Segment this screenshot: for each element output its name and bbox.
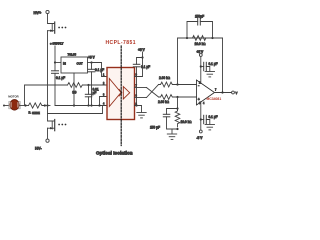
label Optical Isolation [96,150,133,155]
node HV+ terminal [46,10,49,13]
svg-text:0.1 µF: 0.1 µF [209,115,218,119]
wire GND1 bus [55,105,107,107]
label +SUPPLY [50,42,63,46]
wire op-amp V- [200,102,202,131]
svg-text:MC34081: MC34081 [207,97,222,101]
svg-text:10.0 kΩ: 10.0 kΩ [181,120,193,124]
svg-text:2.00 kΩ: 2.00 kΩ [158,100,170,104]
svg-text:-5 V: -5 V [197,136,204,140]
wire R3 to op-amp non-inverting input [174,96,197,98]
wire R1 to pin 2 [83,84,108,86]
wire feedback left riser [178,38,223,85]
pin number 4 [103,104,105,106]
wire pin 5 to ground [135,106,142,113]
svg-text:2.00 kΩ: 2.00 kΩ [159,76,171,80]
junction +5V node [90,61,92,63]
wire +SUPPLY lead [54,46,56,63]
wire pin 8 to +5V riser [135,52,143,77]
junction regulator GND on bus [73,104,75,106]
node -5V terminal [199,130,202,133]
pin number 7 (op-amp out) [215,90,217,92]
svg-text:0.1 µF: 0.1 µF [209,62,218,66]
svg-text:Optical Isolation: Optical Isolation [96,150,133,155]
label +5V (output side top) [138,48,146,52]
capacitor C4 0.1uF (VDD2 bypass) [133,58,150,106]
regulator U2 78L05 [61,53,88,74]
motor M1 [8,95,20,110]
pin number 2 (op-amp) [199,82,201,84]
ground (filter) [167,134,176,139]
continuation dots of phase leg (top) [58,27,66,29]
resistor R_SENSE [29,103,45,115]
pin number 4 (op-amp) [203,103,205,105]
resistor R5 10.0k (filter) [175,109,192,127]
wire +5V to pin 1 [92,63,108,77]
ground (V- bypass) [205,125,214,130]
resistor R3 2.00k (lower) [158,95,174,104]
capacitor C1 0.1uF (regulator input) [52,63,66,106]
svg-text:+: + [198,97,200,101]
junction C4 on pin5 ground wire [135,104,137,106]
node +5V terminal (op-amp supply) [199,54,202,57]
svg-text:OUT: OUT [77,61,83,65]
resistor R4 10.0k feedback [193,36,207,46]
transistor Q1 upper MOSFET [48,22,55,33]
junction supply/IN [54,61,56,63]
svg-text:+5 V: +5 V [138,48,146,52]
capacitor C5 150pF feedback [187,15,213,39]
svg-text:10.0 kΩ: 10.0 kΩ [195,42,207,46]
wire lower leg drain [48,114,55,122]
wire to regulator IN [55,62,61,64]
svg-text:0.1 µF: 0.1 µF [56,76,65,80]
wire phase node stub [45,105,50,107]
wire feedback right riser to output [222,38,224,93]
junction V- bypass [200,118,202,120]
svg-text:HV+: HV+ [34,10,43,15]
svg-text:7: 7 [215,90,217,92]
label -5V [197,136,204,140]
wire terminal to motor [4,105,10,107]
wire sense tap to 39 ohm (left run) [25,85,68,106]
pin number 8 [136,75,138,77]
pin number 3 [103,95,105,97]
node HV- terminal [46,139,49,142]
ground (V+ bypass) [205,72,214,77]
isolation dashed line [120,46,122,146]
wire crossover pin6 to upper row [147,85,159,98]
pin number 6 [136,96,138,98]
svg-text:R: R [29,111,31,115]
junction pin2 node [87,84,89,86]
wire op-amp output [215,92,232,94]
node motor input terminal [3,105,5,107]
pin number 1 [103,75,105,77]
svg-text:MOTOR: MOTOR [8,95,18,99]
junction feedback tap [176,83,178,85]
node Vout terminal [232,91,235,94]
wire pin 7 stub [135,87,147,89]
junction pin8 bypass node [141,56,143,58]
junction feedback cap left [186,37,188,39]
wire pin 3 riser [100,97,108,106]
junction output/feedback [221,91,223,93]
wire crossover pin7 to lower row [147,88,159,98]
label +5V (input side) [88,56,96,60]
junction filter bottom [176,128,178,130]
svg-text:+ SUPPLY: + SUPPLY [50,42,63,46]
wire filter to ground [171,129,173,134]
junction C2 on GND1 bus [90,104,92,106]
wire op-amp V+ [200,56,202,83]
resistor R1 39 ohm [68,83,83,95]
capacitor C8 0.1uF (V- bypass) [201,115,218,124]
junction V+ bypass [200,65,202,67]
junction filter top [176,107,178,109]
pin number 2 [103,83,105,85]
junction phase node dots [44,104,49,106]
svg-text:V: V [236,91,238,95]
svg-text:SENSE: SENSE [32,113,40,115]
ground GND2 (under pin5) [137,113,146,118]
wire motor to R_SENSE [20,105,29,107]
pin number 5 [136,104,138,106]
amp symbol inside U1 (output side) [123,87,129,100]
capacitor C2 0.1uF (regulator output) [88,63,104,106]
svg-text:78L05: 78L05 [68,53,77,57]
optical link chevron [119,89,122,96]
pin number 3 (op-amp) [199,103,201,105]
svg-text:0.1 µF: 0.1 µF [95,68,104,72]
capacitor C6 150pF (filter) [150,109,178,130]
svg-text:0.1 µF: 0.1 µF [141,65,150,69]
op-amp symbol inside U1 (input side) [109,79,121,107]
wire filter tap down [177,97,179,111]
wire R2 to op-amp inverting input [174,84,197,86]
wire phase to GND1 detour [48,106,103,114]
op-amp U3 MC34081 [197,80,222,105]
continuation dots of phase leg (bottom) [58,124,66,126]
junction RC filter tap [176,96,178,98]
svg-text:+5 V: +5 V [88,56,96,60]
label Vout [236,91,238,95]
svg-text:150 pF: 150 pF [150,126,160,130]
svg-text:+5 V: +5 V [197,50,205,54]
wire Q2 source to HV- [47,128,49,139]
resistor R2 2.00k (upper) [159,76,174,87]
wire regulator GND lead [73,73,75,106]
junction motor/Rsense node [24,104,26,106]
svg-text:39: 39 [72,91,76,95]
svg-text:IN: IN [63,61,66,65]
label +5V (op-amp) [197,50,205,54]
label HV+ [34,10,43,15]
wire Q1 source down to phase node [47,31,49,106]
svg-text:HCPL-7851: HCPL-7851 [106,40,136,46]
transistor Q2 lower MOSFET [48,120,55,131]
wire pin 6 stub [135,97,147,99]
label HV- [35,145,42,150]
capacitor C3 0.01uF [85,85,99,106]
svg-text:4: 4 [203,103,205,105]
pin number 7 [136,86,138,88]
capacitor C7 0.1uF (V+ bypass) [201,62,218,71]
svg-text:HV-: HV- [35,145,42,150]
optocoupler U1 HCPL-7851 [106,40,136,119]
svg-text:150pF: 150pF [195,15,204,19]
wire regulator OUT [88,62,92,64]
wire HV+ to Q1 drain [48,14,55,24]
junction C3 on GND1 bus [87,104,89,106]
junction feedback cap right [211,37,213,39]
svg-text:µF: µF [93,91,97,95]
junction pin3 riser on bus [98,104,100,106]
